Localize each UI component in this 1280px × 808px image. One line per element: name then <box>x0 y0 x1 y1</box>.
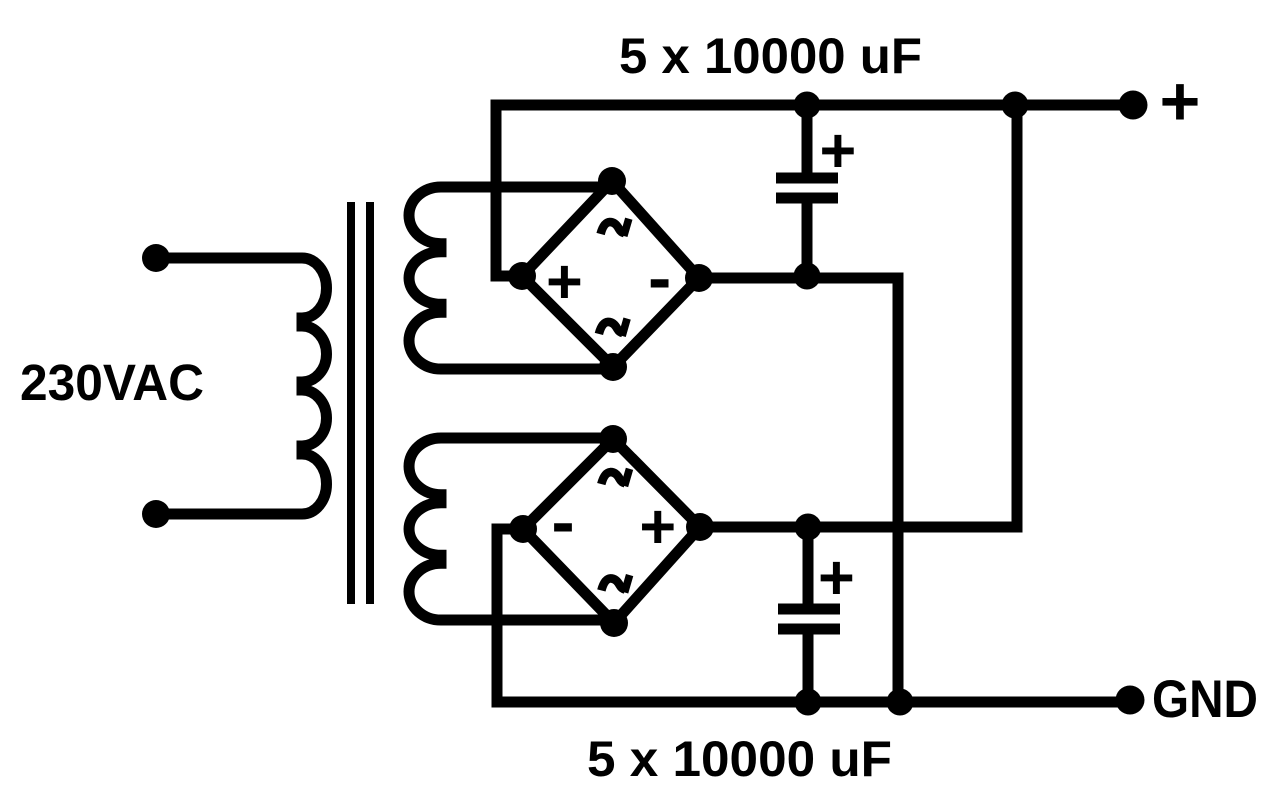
node junction ground bus on ground rail <box>887 689 914 716</box>
capacitor C1 plates <box>776 178 838 198</box>
node junction C1 top on positive rail <box>794 92 821 119</box>
node junction C2 bottom on ground rail <box>795 689 822 716</box>
node GND output terminal <box>1116 686 1145 715</box>
capacitor C1 top lead <box>802 105 813 173</box>
wire positive rail top <box>496 105 1133 276</box>
transformer core <box>351 202 370 604</box>
transformer T1 primary winding <box>302 258 327 514</box>
node positive output terminal <box>1119 91 1148 120</box>
svg-text:GND: GND <box>1152 670 1258 729</box>
capacitor C1 bottom lead <box>802 204 813 279</box>
node junction C1 bottom <box>794 263 821 290</box>
node bridge 2 minus vertex <box>509 515 537 543</box>
svg-text:5 x 10000 uF: 5 x 10000 uF <box>587 731 892 787</box>
label tilde bridge 2 bottom <box>601 575 629 592</box>
node input terminal bottom <box>142 500 170 528</box>
wire upper secondary bottom to bridge 1 AC2 <box>441 364 613 375</box>
transformer T1 upper secondary winding <box>409 187 441 369</box>
wire bridge 1 negative output to ground bus <box>699 278 898 702</box>
svg-text:230VAC: 230VAC <box>20 354 204 411</box>
svg-text:+: + <box>546 247 583 317</box>
label tilde bridge 2 top <box>601 469 629 486</box>
bridge rectifier 2 diamond <box>523 439 700 623</box>
capacitor C2 plates <box>778 609 840 629</box>
capacitor C2 top lead <box>803 527 814 604</box>
svg-text:-: - <box>648 239 671 317</box>
node bridge 2 AC1 vertex <box>599 425 627 453</box>
wire primary top lead <box>156 253 302 264</box>
capacitor C2 bottom lead <box>803 635 814 703</box>
wire lower secondary bottom to bridge 2 AC2 <box>441 615 614 626</box>
svg-text:+: + <box>818 543 855 613</box>
node bridge 1 minus vertex <box>685 264 713 292</box>
node junction C2 top <box>795 514 822 541</box>
label tilde bridge 1 bottom <box>599 319 627 336</box>
node bridge 1 AC1 vertex <box>598 167 626 195</box>
transformer T1 lower secondary winding <box>409 438 441 620</box>
svg-text:+: + <box>820 116 857 186</box>
wire primary bottom lead <box>156 509 302 520</box>
node bridge 1 plus vertex <box>508 262 536 290</box>
svg-text:-: - <box>551 483 574 561</box>
node bridge 2 AC2 vertex <box>600 609 628 637</box>
wire bridge 2 positive output up to positive rail <box>700 105 1017 527</box>
wire upper secondary top to bridge 1 AC1 <box>441 182 612 193</box>
svg-text:+: + <box>639 492 676 562</box>
node bridge 1 AC2 vertex <box>599 353 627 381</box>
wire ground rail bottom <box>497 529 1130 702</box>
svg-text:+: + <box>1160 62 1201 140</box>
node bridge 2 plus vertex <box>686 513 714 541</box>
svg-text:5 x 10000 uF: 5 x 10000 uF <box>619 28 922 84</box>
wire lower secondary top to bridge 2 AC1 <box>441 433 613 444</box>
node input terminal top <box>142 244 170 272</box>
label tilde bridge 1 top <box>601 219 629 236</box>
bridge rectifier 1 diamond <box>522 181 699 367</box>
node junction positive rail and bridge 2 output riser <box>1002 92 1029 119</box>
